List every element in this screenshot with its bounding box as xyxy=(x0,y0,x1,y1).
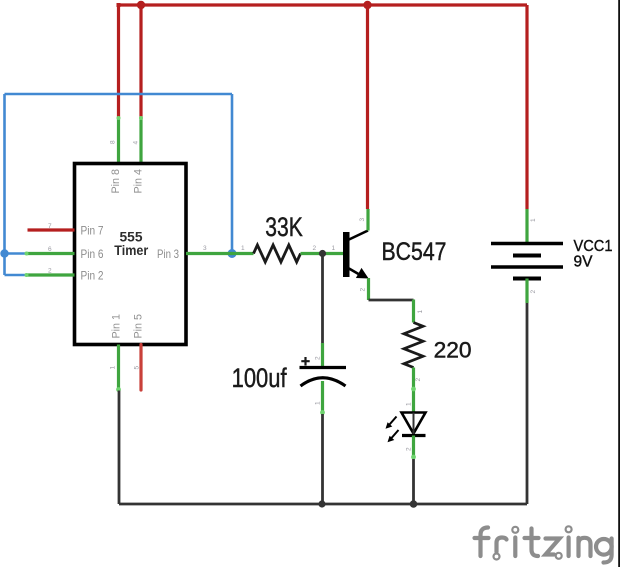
svg-text:Pin 1: Pin 1 xyxy=(110,314,122,339)
wire: C1 to ground rail dark xyxy=(321,414,324,504)
wire: blue right vertical to pin 3 net xyxy=(231,94,234,254)
svg-text:1: 1 xyxy=(332,245,336,252)
svg-text:3: 3 xyxy=(359,218,366,222)
transistor Q1 collector stroke xyxy=(349,231,368,240)
svg-text:2: 2 xyxy=(48,268,52,275)
svg-text:Pin 6: Pin 6 xyxy=(81,247,104,261)
svg-text:2: 2 xyxy=(530,290,537,294)
node: green joint below C1 xyxy=(320,410,325,415)
pin leg: C1 bottom green xyxy=(321,381,324,414)
node: blue junction on pin 3 wire xyxy=(228,249,237,258)
node: junction C1 on bottom rail xyxy=(318,500,325,507)
svg-text:4: 4 xyxy=(133,141,140,145)
svg-text:6: 6 xyxy=(48,246,52,253)
wire: battery negative to ground rail xyxy=(526,303,529,504)
pin leg: Q1 collector green xyxy=(366,209,369,231)
pin leg: U1 pin 1 green xyxy=(117,345,120,391)
svg-text:3: 3 xyxy=(203,245,207,252)
LED light arrow 1 xyxy=(390,417,397,425)
svg-text:Pin 8: Pin 8 xyxy=(110,169,122,194)
wire: blue feedback horizontal xyxy=(5,93,233,96)
pin leg: battery positive green xyxy=(525,209,528,244)
svg-text:2: 2 xyxy=(406,447,413,451)
svg-text:1: 1 xyxy=(315,401,322,405)
wire: LED to ground rail dark xyxy=(412,459,415,504)
svg-text:7: 7 xyxy=(48,223,52,230)
svg-text:2: 2 xyxy=(360,288,367,292)
svg-text:220: 220 xyxy=(434,337,472,362)
pin leg: Q1 emitter green xyxy=(367,278,370,300)
pin leg: U1 pin 2 xyxy=(26,273,75,276)
svg-text:Pin 5: Pin 5 xyxy=(133,314,145,339)
window edge line right xyxy=(618,0,620,567)
svg-text:1: 1 xyxy=(417,310,424,314)
svg-text:33K: 33K xyxy=(265,212,303,242)
svg-text:2: 2 xyxy=(315,356,322,360)
battery VCC1 plate 2 xyxy=(513,254,541,258)
wire: capacitor feed dark vertical xyxy=(321,254,324,344)
wire: pin 1 down to bottom rail xyxy=(118,391,121,505)
svg-text:1: 1 xyxy=(406,402,413,406)
pin leg: LED cathode green xyxy=(412,436,415,460)
svg-text:100uf: 100uf xyxy=(232,363,288,393)
node: junction to capacitor xyxy=(319,250,326,257)
resistor R2 220 zigzag xyxy=(404,323,423,368)
svg-text:Pin 7: Pin 7 xyxy=(81,223,104,237)
wire: blue stub to pin 6 xyxy=(5,252,27,255)
node: green wire joint at LED bottom xyxy=(411,455,416,460)
resistor R1 33K zigzag xyxy=(254,245,301,262)
wire: top VCC red rail xyxy=(119,3,528,6)
pin leg: U1 pin 5 red stub xyxy=(139,345,142,391)
svg-text:Timer: Timer xyxy=(114,242,148,258)
battery VCC1 plate 4 xyxy=(513,277,541,281)
pin leg: U1 pin 4 xyxy=(139,118,142,164)
fritzing watermark xyxy=(475,526,612,562)
battery VCC1 plate 3 xyxy=(491,265,563,269)
svg-text:BC547: BC547 xyxy=(382,238,447,266)
LED D1 cathode bar xyxy=(402,434,426,437)
wire: red drop to pin 4 xyxy=(139,5,142,118)
node: red junction at collector drop xyxy=(363,1,371,9)
wire: blue stub to pin 2 xyxy=(5,274,27,277)
wire: pin 3 output green xyxy=(186,252,254,255)
pin leg: U1 pin 6 xyxy=(26,252,75,255)
wire: blue left vertical xyxy=(3,94,6,275)
pin leg: U1 pin 8 xyxy=(117,118,120,164)
LED light arrow 2 xyxy=(392,430,399,438)
svg-text:2: 2 xyxy=(415,378,422,382)
pin leg: R2 top green xyxy=(412,300,415,323)
svg-text:5: 5 xyxy=(134,366,141,370)
wire: pin 7 red stub xyxy=(28,228,75,231)
wire: bottom ground rail xyxy=(119,503,527,506)
pin leg: C1 top green xyxy=(321,343,324,366)
svg-text:Pin 3: Pin 3 xyxy=(157,247,179,261)
wire: R1 to Q1 base green xyxy=(301,252,344,255)
capacitor C1 plus sign xyxy=(301,357,309,366)
svg-text:9V: 9V xyxy=(574,254,593,271)
wire: red drop to battery positive xyxy=(525,5,528,209)
wire: red drop to Q1 collector xyxy=(366,5,369,209)
capacitor C1 curved plate xyxy=(301,378,346,386)
capacitor C1 top plate xyxy=(300,366,347,369)
node: junction LED on bottom rail xyxy=(410,500,418,508)
svg-text:8: 8 xyxy=(110,140,117,144)
wire: R2 to LED green xyxy=(412,368,415,413)
battery VCC1 plate 1 xyxy=(491,242,563,246)
svg-text:Pin 2: Pin 2 xyxy=(81,268,104,282)
node: blue junction left xyxy=(0,249,8,257)
transistor Q1 emitter stroke with arrow xyxy=(349,269,359,275)
svg-text:1: 1 xyxy=(110,366,117,370)
wire: emitter to R2 dark xyxy=(369,299,414,302)
svg-text:2: 2 xyxy=(313,245,317,252)
LED D1 triangle xyxy=(402,413,426,434)
node: rail endpoint left xyxy=(117,3,121,7)
svg-text:Pin 4: Pin 4 xyxy=(133,169,145,194)
node: red junction at pin4 drop xyxy=(137,1,145,9)
wire: red drop to pin 8 xyxy=(117,5,120,118)
svg-text:1: 1 xyxy=(530,218,537,222)
svg-text:VCC1: VCC1 xyxy=(574,238,613,255)
op-amp U1: 555 timer IC body xyxy=(75,164,187,345)
node: green wire joint xyxy=(411,387,416,392)
transistor Q1 BC547 base bar xyxy=(343,232,350,277)
svg-text:1: 1 xyxy=(241,245,245,252)
pin leg: battery negative green xyxy=(525,279,528,304)
